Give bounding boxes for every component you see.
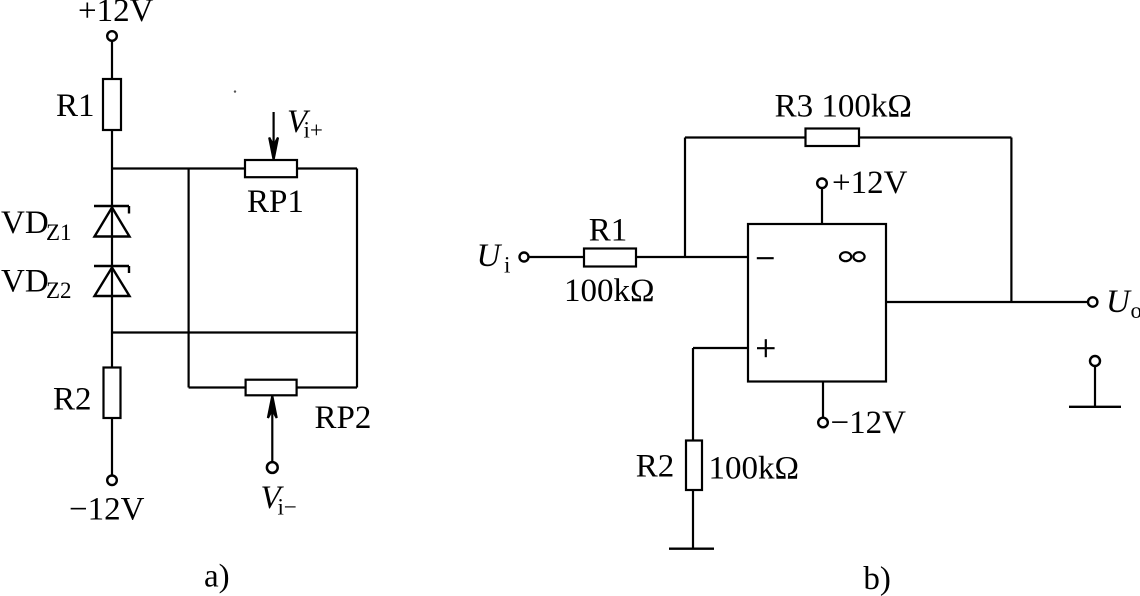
wire upper horizontal xyxy=(112,167,245,169)
wire xyxy=(692,490,694,549)
zener diode VDZ1 xyxy=(94,206,130,237)
svg-text:i−: i− xyxy=(278,495,297,520)
svg-text:R1: R1 xyxy=(589,213,628,249)
svg-text:−12V: −12V xyxy=(831,405,907,441)
wire feedback top right xyxy=(859,136,1011,138)
terminal +12V (circuit a) xyxy=(107,31,117,41)
svg-text:Z2: Z2 xyxy=(46,278,72,303)
svg-text:R2: R2 xyxy=(636,449,675,485)
wire output xyxy=(886,301,1088,303)
wire feedback top left xyxy=(685,136,806,138)
svg-text:100kΩ: 100kΩ xyxy=(564,273,655,309)
svg-text:o: o xyxy=(1131,298,1140,323)
op-amp infinity gain symbol xyxy=(840,252,851,261)
wire xyxy=(821,188,823,224)
ground terminal right xyxy=(1090,356,1100,366)
wire RP2 left xyxy=(189,386,246,388)
wire xyxy=(111,418,113,476)
svg-text:a): a) xyxy=(204,559,230,595)
svg-text:100kΩ: 100kΩ xyxy=(709,451,800,487)
svg-text:R3 100kΩ: R3 100kΩ xyxy=(775,89,912,125)
terminal +12V (circuit b) xyxy=(817,179,827,189)
wiper arrow Vi- xyxy=(271,408,273,461)
svg-text:RP2: RP2 xyxy=(315,400,372,436)
wire feedback left vertical xyxy=(684,138,686,258)
potentiometer RP1 xyxy=(245,160,297,177)
op-amp U1 box xyxy=(748,224,886,382)
wire inner vertical xyxy=(188,169,190,388)
op-amp minus input sign xyxy=(757,257,774,259)
svg-text:i+: i+ xyxy=(304,118,323,143)
svg-text:R1: R1 xyxy=(56,88,95,124)
resistor R1 (circuit a) xyxy=(103,79,121,130)
svg-text:U: U xyxy=(477,238,503,274)
svg-text:VD: VD xyxy=(1,205,49,241)
wire lower horizontal xyxy=(112,331,357,333)
wiper arrow Vi+ xyxy=(273,112,275,148)
svg-text:VD: VD xyxy=(1,264,49,300)
svg-text:+12V: +12V xyxy=(832,165,908,201)
svg-text:b): b) xyxy=(863,561,891,596)
svg-text:Z1: Z1 xyxy=(46,220,72,245)
wire non-inverting input xyxy=(693,347,748,349)
svg-text:i: i xyxy=(504,253,510,278)
wire xyxy=(636,256,748,258)
resistor R2 (circuit b) xyxy=(686,441,702,491)
wire feedback right vertical xyxy=(1010,138,1012,303)
svg-text:U: U xyxy=(1106,284,1132,320)
wire xyxy=(692,348,694,441)
wire right vertical xyxy=(356,169,358,388)
svg-text:+12V: +12V xyxy=(78,0,154,29)
svg-text:−12V: −12V xyxy=(69,492,145,528)
resistor R3 xyxy=(806,129,860,147)
wire xyxy=(111,41,113,79)
svg-text:R2: R2 xyxy=(53,382,92,418)
svg-text:RP1: RP1 xyxy=(247,184,304,220)
terminal -12V (circuit b) xyxy=(818,418,828,428)
speck xyxy=(234,90,236,92)
potentiometer RP2 xyxy=(246,380,297,396)
wire xyxy=(111,130,113,368)
resistor R2 (circuit a) xyxy=(104,368,121,419)
wire xyxy=(822,382,824,418)
terminal Ui (circuit b) xyxy=(520,253,529,262)
terminal -12V (circuit a) xyxy=(107,476,117,486)
terminal Vi- xyxy=(267,462,278,473)
resistor R1 (circuit b) xyxy=(584,249,636,267)
wire xyxy=(297,167,357,169)
ground xyxy=(669,548,714,550)
terminal Uo xyxy=(1088,297,1097,306)
wire xyxy=(529,256,585,258)
op-amp plus input sign xyxy=(757,347,775,349)
wire RP2 right xyxy=(297,386,357,388)
zener diode VDZ2 xyxy=(94,266,130,296)
